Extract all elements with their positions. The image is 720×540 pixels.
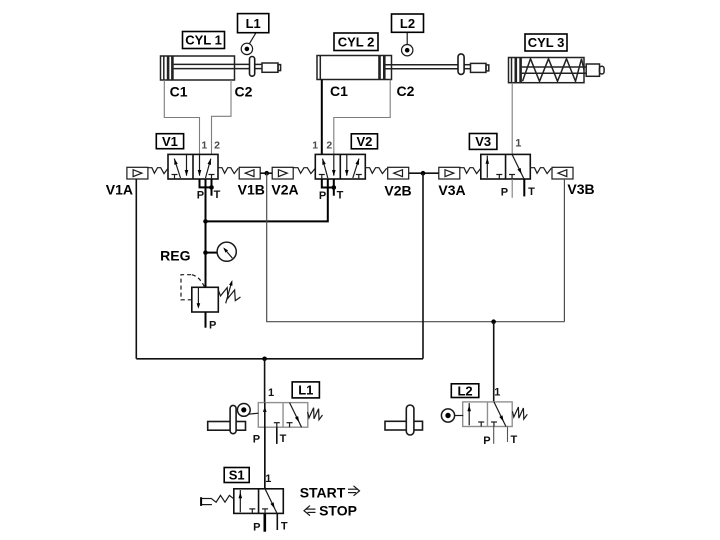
pilot V2B [388,167,409,179]
label box CYL2 [334,33,378,51]
wire V2 T stub [333,179,335,196]
svg-text:V2A: V2A [271,182,298,198]
trip rod bar L1 [208,422,246,431]
gauge [217,242,236,261]
svg-text:C1: C1 [170,84,188,100]
label box L2 top [392,14,424,32]
wire V3 T stub [523,179,525,196]
trip rod plunger L2 [406,405,414,435]
svg-text:V3A: V3A [438,182,465,198]
wire bus riser to V2B-V3A [422,173,424,359]
spring L1 [308,408,323,420]
wire S1 T stub [276,513,278,530]
regulator REG adjust arrow [226,280,233,303]
junction L2 output [491,319,496,324]
wire L2 output riser [493,322,495,402]
svg-text:V1B: V1B [238,182,265,198]
wire L2 P stub [493,427,495,444]
spring V2 left [294,168,316,174]
valve V3 body [481,154,531,179]
label box CYL1 [183,32,225,49]
junction pilot V1B-V2A [264,171,269,176]
svg-text:STOP: STOP [319,503,357,519]
pilot V2A [272,167,293,179]
label V3B [567,181,594,197]
svg-text:C1: C1 [330,83,348,99]
svg-text:L1: L1 [298,383,313,398]
roller sensor L2 [441,409,463,422]
port label 1 of V1 [201,139,207,151]
text STOP [304,503,357,519]
pilot V1B [239,167,260,179]
wire V1A pilot drop [135,179,137,359]
svg-text:P: P [319,190,326,202]
rod flange CYL2 [458,54,464,75]
junction pilot V2B-V3A [421,171,426,176]
svg-text:REG: REG [160,247,190,263]
wire V2B to V3A pilot [409,172,439,174]
wire CYL1 C2 to V1 port2 [212,80,232,154]
label box L1 [292,382,319,398]
svg-text:P: P [501,186,508,198]
wire L1 through P [264,403,266,489]
spring S1 [212,495,234,502]
svg-text:1: 1 [494,387,500,399]
svg-text:L1: L1 [246,16,261,31]
port label 2 of V1 [214,139,220,151]
wire CYL2 C1 to V2 port1 [321,80,323,155]
spring V3 left [460,168,481,174]
port label C2 of CYL2 [397,83,415,99]
wire L1 T stub [276,427,278,444]
label V2B [384,183,411,199]
port label T of V1 [214,189,221,201]
wire L1 port1 riser [264,359,266,403]
port label T of V2 [337,190,344,202]
svg-text:T: T [528,186,535,198]
trip rod plunger L1 [230,405,236,433]
wire CYL1 C1 to V1 port1 [164,80,199,154]
label box V1 [156,134,183,149]
port label 1 of L2 [494,387,500,399]
svg-text:START: START [300,485,346,501]
label V3A [438,182,465,198]
port label T of L1 [280,433,287,445]
spring V3 right [530,168,551,174]
valve S1 body [234,489,283,514]
port label P of REG [209,320,216,332]
pushbutton S1 [201,497,212,506]
wire V2 exhaust bracket [322,179,334,188]
text START [300,485,360,501]
wire gauge branch [206,252,218,254]
junction V2 bracket-T [332,185,337,190]
wire S1 P stub [263,513,266,531]
wire L1 P to S1 port1 [264,427,266,489]
svg-text:V3: V3 [475,134,491,149]
svg-text:V1: V1 [162,134,178,149]
junction bus L1 [262,357,267,362]
return spring CYL3 [523,59,585,82]
wire V1 P supply line [205,179,207,287]
svg-text:V2B: V2B [384,183,411,199]
label box V3 [469,134,497,150]
trip rod bar L2 [385,421,423,430]
valve L1 body [258,403,308,428]
rod flange CYL1 [250,57,255,77]
svg-text:S1: S1 [229,468,245,483]
svg-text:CYL 1: CYL 1 [185,33,222,48]
svg-text:1: 1 [268,387,274,399]
label V1B [238,182,265,198]
sensor marker L1 [241,33,256,55]
port label P of V2 [319,190,326,202]
svg-text:L2: L2 [400,16,415,31]
wire V1 exhaust bracket [200,179,212,187]
svg-text:CYL 2: CYL 2 [338,34,375,49]
port label C1 of CYL2 [330,83,348,99]
label V2A [271,182,298,198]
port label C2 of CYL1 [235,84,253,100]
spring V1 right [218,168,238,174]
label box S1 [224,468,249,483]
junction gauge branch [203,250,208,255]
wire REG P stub [205,312,207,328]
junction supply branch [203,219,208,224]
port label 2 of V2 [326,139,332,151]
wire V3 P stub [511,179,513,198]
port label P of L1 [253,433,260,445]
port label T of V3 [528,186,535,198]
port label T of L2 [511,434,518,446]
svg-text:T: T [511,434,518,446]
spring L2 [512,407,527,419]
regulator REG spring [218,288,240,301]
cylinder CYL3 [509,58,605,83]
spring V2 right [365,168,386,174]
port label 1 of L1 [268,387,274,399]
port label C1 of CYL1 [170,84,188,100]
svg-text:T: T [280,433,287,445]
svg-text:1: 1 [312,139,318,151]
sensor marker L2 [402,32,413,56]
wire V1 T stub [211,179,213,196]
regulator REG pilot dashed [181,275,204,300]
svg-text:2: 2 [326,139,332,151]
roller sensor L1 [237,404,258,417]
svg-text:V1A: V1A [106,182,133,198]
svg-text:T: T [214,189,221,201]
port label 1 of V3 [515,138,521,150]
svg-text:P: P [253,521,260,533]
svg-text:T: T [281,521,288,533]
svg-text:L2: L2 [457,383,472,398]
svg-text:P: P [209,320,216,332]
valve V2 body [315,154,365,179]
wire V1B to V2A pilot [260,172,272,174]
port label P of V3 [501,186,508,198]
port label P of S1 [253,521,260,533]
cylinder CYL2 [317,56,489,80]
junction V1 bracket-T [209,185,214,190]
label box CYL3 [525,34,567,51]
svg-text:V3B: V3B [567,181,594,197]
spring V1 left [148,168,168,174]
svg-text:CYL 3: CYL 3 [528,35,565,50]
svg-text:1: 1 [515,138,521,150]
port label P of V1 [197,190,204,202]
svg-text:2: 2 [214,139,220,151]
wire CYL2 C2 to V2 port2 [334,80,390,155]
pilot V3A [439,167,460,179]
svg-text:C2: C2 [397,83,415,99]
wire bus L1 output [136,358,423,360]
port label 1 of V2 [312,139,318,151]
svg-text:1: 1 [265,473,271,485]
pilot V3B [552,167,573,179]
cylinder CYL1 [161,56,281,80]
wire group B signal [267,173,565,322]
svg-text:V2: V2 [356,134,372,149]
svg-text:P: P [483,435,490,447]
svg-text:1: 1 [201,139,207,151]
port label P of L2 [483,435,490,447]
regulator REG body [192,287,219,312]
svg-text:T: T [337,190,344,202]
valve L2 body [463,402,513,427]
pilot V1A [127,167,148,179]
wire CYL3 to V3 port1 [511,83,513,155]
wire V3B pilot drop [563,179,565,322]
wire L2 T stub [507,427,509,443]
svg-text:C2: C2 [235,84,253,100]
port label 1 of S1 [265,473,271,485]
label box L1 top [238,14,269,33]
svg-text:P: P [197,190,204,202]
label box V2 [351,134,377,149]
svg-text:P: P [253,433,260,445]
label box L2 [451,383,479,398]
label REG [160,247,190,263]
wire V2 P branch [206,179,328,221]
port label T of S1 [281,521,288,533]
label V1A [106,182,133,198]
valve V1 body [168,154,218,179]
